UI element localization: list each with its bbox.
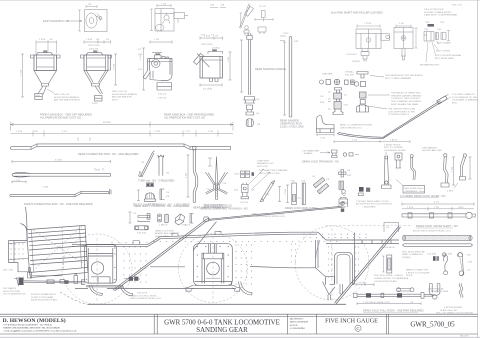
svg-text:5mm RND SHAFT AND ROLLER CLEVI: 5mm RND SHAFT AND ROLLER CLEVISES bbox=[331, 11, 383, 15]
svg-text:RODS: RODS bbox=[406, 275, 413, 277]
lid plan detail box A bbox=[85, 10, 108, 32]
svg-text:5 1/4: 5 1/4 bbox=[62, 131, 68, 133]
svg-text:EACH MOUNTING PLATE: EACH MOUNTING PLATE bbox=[31, 299, 58, 302]
svg-text:DOWN TO PIN DRAIN: DOWN TO PIN DRAIN bbox=[31, 296, 54, 299]
svg-text:EXTEND STEAM SHUTS: EXTEND STEAM SHUTS bbox=[31, 293, 57, 296]
frame right end bbox=[326, 233, 399, 285]
dark guide blocks bbox=[433, 256, 436, 261]
T pin bbox=[357, 72, 368, 79]
tab piece bbox=[441, 33, 446, 40]
guide bracket bbox=[243, 97, 256, 104]
filler knob bbox=[44, 51, 48, 53]
middle sand pipe diagonal bbox=[193, 222, 217, 251]
svg-text:2 BLIND HOLES: 2 BLIND HOLES bbox=[384, 144, 401, 146]
svg-text:BEHIND AND UNTIL: BEHIND AND UNTIL bbox=[155, 232, 176, 235]
svg-text:2 BLVD: 2 BLVD bbox=[390, 140, 398, 142]
svg-text:1/8 & 1/4 TROLLED: 1/8 & 1/4 TROLLED bbox=[424, 9, 444, 11]
svg-text:12/8 11/16: 12/8 11/16 bbox=[137, 293, 148, 295]
T spindle bbox=[335, 88, 342, 94]
leader arrows from notes bbox=[248, 169, 270, 189]
lid knob bbox=[152, 53, 162, 59]
rod guide bump 0 on frame top bbox=[133, 241, 140, 245]
rod end crank right bbox=[342, 201, 346, 207]
divider after address cell bbox=[153, 314, 155, 334]
svg-text:CHECK LENGTH FROM LOCO: CHECK LENGTH FROM LOCO bbox=[254, 216, 285, 218]
dim left of section B bbox=[150, 9, 153, 31]
svg-text:THE LENGTH SHOULD BE: THE LENGTH SHOULD BE bbox=[388, 109, 416, 111]
rounded top bbox=[289, 36, 292, 38]
dims below bbox=[200, 84, 222, 87]
left dims bbox=[142, 48, 145, 90]
spout box bbox=[35, 94, 42, 100]
svg-text:THICKNESS OF THESE TWO: THICKNESS OF THESE TWO bbox=[391, 93, 421, 95]
frame mid lines bbox=[150, 267, 335, 277]
rod body bbox=[357, 294, 421, 296]
small dim below left bbox=[12, 180, 26, 183]
svg-text:AND TAP M4A FOR NUTS: AND TAP M4A FOR NUTS bbox=[54, 99, 81, 102]
base flare bbox=[333, 109, 343, 115]
knob in section bbox=[164, 15, 169, 20]
dim row 2 bbox=[11, 133, 234, 135]
straight sanding rod bbox=[12, 168, 111, 183]
svg-text:1 1/8 CHECK FROM LOCO: 1 1/8 CHECK FROM LOCO bbox=[363, 302, 390, 304]
vertical link right bbox=[339, 181, 344, 190]
left vertical dim bbox=[21, 54, 24, 97]
svg-text:1 1/16: 1 1/16 bbox=[14, 180, 21, 182]
svg-text:1 3/4: 1 3/4 bbox=[399, 23, 405, 25]
svg-text:NUTS: NUTS bbox=[112, 99, 118, 101]
svg-text:SOLDER TO MAKE FRONT: SOLDER TO MAKE FRONT bbox=[424, 11, 452, 14]
C channel small bbox=[190, 214, 194, 224]
crank at top bbox=[206, 218, 210, 220]
acorn tip bbox=[246, 119, 253, 127]
front buffer plate bbox=[9, 207, 28, 272]
rear lower V link bbox=[323, 282, 343, 301]
clevis at top bbox=[247, 33, 252, 40]
svg-text:1 1/8: 1 1/8 bbox=[161, 4, 167, 6]
dims beside bbox=[240, 40, 243, 92]
svg-text:ONE PAIR: ONE PAIR bbox=[322, 73, 333, 76]
rear sand pipe diagonal bbox=[335, 226, 401, 304]
lever 3 dim bbox=[452, 157, 455, 185]
dark pin bbox=[252, 172, 255, 176]
length dim bbox=[283, 42, 286, 115]
svg-text:1/16 5/32: 1/16 5/32 bbox=[427, 254, 437, 256]
svg-text:3/16 x 1/4: 3/16 x 1/4 bbox=[452, 5, 462, 7]
svg-text:5/32 SHAFT WITH WASHER: 5/32 SHAFT WITH WASHER bbox=[259, 169, 288, 172]
svg-text:DRAIN COCK PULL RODS - ONE PAI: DRAIN COCK PULL RODS - ONE PAIR REQUIRED bbox=[363, 308, 424, 312]
guide blocks dark bbox=[366, 293, 371, 297]
small collar bbox=[360, 100, 365, 105]
svg-text:REAR SHAFT TRUNNION - NO - 2 R: REAR SHAFT TRUNNION - NO - 2 REQUIRED bbox=[134, 204, 189, 208]
filler cap circle bbox=[152, 60, 160, 68]
lid bbox=[208, 50, 223, 54]
svg-text:MB x794: MB x794 bbox=[460, 336, 469, 338]
title block inner top line bbox=[0, 315, 478, 317]
small sandbox partial bbox=[339, 190, 348, 207]
leader lines to labels bbox=[426, 41, 439, 62]
dashed centre line to right details bbox=[326, 224, 412, 226]
straight rod dim bbox=[12, 160, 111, 163]
small parts row bbox=[320, 80, 324, 84]
svg-text:MED PLATE 78mm: MED PLATE 78mm bbox=[405, 187, 424, 190]
svg-text:ONE GARDEN: ONE GARDEN bbox=[422, 146, 437, 149]
svg-text:WASHER & 1/32: WASHER & 1/32 bbox=[257, 162, 274, 165]
title block bottom line bbox=[0, 333, 478, 335]
svg-text:ANGLE IRON: ANGLE IRON bbox=[381, 246, 395, 249]
svg-text:FRONT SANDING GEAR): FRONT SANDING GEAR) bbox=[203, 206, 229, 209]
funnel bbox=[84, 71, 108, 84]
pipe entry diagonal inside bbox=[197, 54, 210, 68]
svg-text:TO EXTENSION OF THE: TO EXTENSION OF THE bbox=[452, 97, 477, 99]
svg-text:4 BTS REQUIRED: 4 BTS REQUIRED bbox=[444, 307, 463, 309]
svg-text:BUST SHAPE: BUST SHAPE bbox=[437, 42, 451, 45]
pipe leader bbox=[443, 97, 451, 101]
outlet bbox=[42, 84, 49, 87]
svg-text:1 3/16: 1 3/16 bbox=[16, 131, 23, 133]
fork link bbox=[430, 284, 440, 296]
svg-text:PULL RODS MUST BE: PULL RODS MUST BE bbox=[402, 251, 425, 253]
svg-text:6 15/32: 6 15/32 bbox=[55, 160, 63, 162]
lower clevis bbox=[242, 183, 249, 193]
spout box bbox=[95, 96, 103, 102]
lower small clevis column bbox=[28, 268, 32, 279]
plain tube rod bbox=[403, 244, 473, 247]
lever handle grip bbox=[245, 6, 254, 16]
dome nut dims bbox=[137, 190, 140, 201]
svg-text:FIVE INCH GAUGE: FIVE INCH GAUGE bbox=[325, 318, 378, 324]
svg-text:5/32 PIN: 5/32 PIN bbox=[345, 74, 354, 76]
flattened spoon end bbox=[12, 173, 30, 177]
bar 2 bbox=[302, 183, 305, 205]
washer bbox=[354, 82, 358, 86]
pipe dim bbox=[334, 140, 410, 143]
svg-text:5mm 'O' RING: 5mm 'O' RING bbox=[436, 50, 450, 52]
svg-text:2 1/4: 2 1/4 bbox=[140, 54, 142, 60]
spout pipe bbox=[95, 86, 103, 94]
clevis cluster right dark bbox=[129, 277, 133, 281]
svg-text:SPACERS CAN BE CHANGED: SPACERS CAN BE CHANGED bbox=[391, 94, 422, 97]
box body bbox=[84, 55, 108, 71]
svg-text:1 3/4: 1 3/4 bbox=[228, 56, 230, 62]
svg-text:1 3/4: 1 3/4 bbox=[452, 166, 454, 172]
bone link bbox=[458, 253, 464, 276]
svg-text:DRAIN COCK TRUNNION - NO: DRAIN COCK TRUNNION - NO bbox=[302, 159, 339, 163]
pin with arrows bbox=[447, 31, 450, 41]
svg-text:DRAW COCK PULL RODS: DRAW COCK PULL RODS bbox=[130, 294, 157, 297]
vertical centre dashed lines bbox=[97, 228, 332, 302]
svg-text:EAST SAND BOX LID: EAST SAND BOX LID bbox=[43, 19, 69, 23]
svg-text:2 BALLS: 2 BALLS bbox=[159, 223, 168, 226]
svg-text:1 3/16: 1 3/16 bbox=[407, 207, 414, 209]
rod tip left bbox=[338, 133, 383, 139]
svg-text:DRAIN COCK CROSS SHAFT - NO: DRAIN COCK CROSS SHAFT - NO bbox=[416, 224, 458, 228]
svg-text:15/32 15/32: 15/32 15/32 bbox=[88, 45, 100, 47]
rear connecting rod bbox=[11, 138, 231, 150]
side rect part bbox=[395, 153, 402, 160]
side tab of box C bbox=[381, 34, 390, 40]
filler knob bbox=[94, 51, 98, 53]
leader arrow to lid detail bbox=[67, 20, 82, 22]
dim above clevis box D bbox=[396, 25, 411, 28]
question crank bbox=[443, 255, 448, 271]
C channel part bbox=[160, 189, 165, 200]
section ellipse bbox=[156, 24, 164, 30]
svg-text:M 59/32: M 59/32 bbox=[103, 122, 112, 124]
lever arm diagonal bbox=[239, 4, 250, 29]
lower body bbox=[150, 71, 161, 81]
svg-text:PLATE 78mm NO: PLATE 78mm NO bbox=[440, 309, 458, 312]
wheel centre dashed circle middle bbox=[179, 234, 248, 303]
svg-text:PERMANENT 78mm: PERMANENT 78mm bbox=[405, 190, 426, 193]
front connecting rod bbox=[10, 187, 111, 197]
svg-text:1 7/16: 1 7/16 bbox=[21, 69, 23, 76]
svg-text:JUST SUFFICIENT TO NIP: JUST SUFFICIENT TO NIP bbox=[388, 111, 415, 113]
svg-text:DRAW COCK ROD: DRAW COCK ROD bbox=[155, 229, 174, 232]
dog bone link bbox=[134, 226, 148, 230]
svg-text:1/8 BALL: 1/8 BALL bbox=[345, 71, 355, 74]
filler pipe diagonal bbox=[193, 53, 203, 64]
cylinder part bbox=[158, 214, 162, 222]
svg-text:1/8 5/16: 1/8 5/16 bbox=[158, 97, 167, 99]
small bracket above bbox=[384, 223, 399, 233]
hatched operating rod bbox=[402, 236, 472, 241]
divider before drawing number cell bbox=[385, 314, 387, 334]
top dim bbox=[208, 158, 212, 166]
S spring part bbox=[459, 284, 463, 298]
svg-text:4 RODS TO CYLINDER: 4 RODS TO CYLINDER bbox=[406, 272, 430, 274]
master dim line bbox=[11, 124, 234, 126]
clevis box D bbox=[394, 28, 413, 49]
dark stamp boxes bbox=[146, 183, 149, 187]
key bracket bbox=[138, 214, 150, 220]
S-curve lever bbox=[186, 147, 198, 203]
left end fitting bbox=[354, 293, 358, 297]
iso block bbox=[175, 214, 185, 225]
diagonal lever small bbox=[141, 151, 155, 177]
svg-text:e-mail: doug@dhewsonmodels.co.: e-mail: doug@dhewsonmodels.co.uk WEB SIT… bbox=[3, 330, 77, 333]
svg-text:7/16 1/4: 7/16 1/4 bbox=[158, 94, 167, 96]
diagonal run bbox=[383, 101, 442, 139]
flared base bbox=[357, 105, 369, 112]
svg-text:(TAKE SHAFT FROM: (TAKE SHAFT FROM bbox=[203, 203, 224, 206]
title block outer top line bbox=[0, 313, 478, 315]
svg-text:2 7/8: 2 7/8 bbox=[434, 207, 440, 209]
svg-text:1 3/16: 1 3/16 bbox=[39, 39, 46, 41]
lid bump bbox=[86, 53, 103, 55]
radiating arms bbox=[207, 173, 227, 186]
frame top edge inner line bbox=[72, 234, 317, 246]
nut bbox=[246, 112, 254, 115]
svg-text:AND TAP M4A FOR: AND TAP M4A FOR bbox=[112, 96, 132, 99]
svg-text:5/32' RAWLS: 5/32' RAWLS bbox=[3, 287, 17, 290]
svg-text:A 3/16 CHECK LENGTH FROM LOCO: A 3/16 CHECK LENGTH FROM LOCO bbox=[413, 230, 451, 233]
dim left of lid A bbox=[78, 10, 81, 31]
right vertical dim bbox=[114, 54, 117, 85]
svg-text:CHECK LENGTH FROM LOCO: CHECK LENGTH FROM LOCO bbox=[130, 298, 161, 300]
vertical pointed lever bbox=[215, 157, 217, 200]
channel with hatch bbox=[387, 255, 392, 273]
svg-text:5/16 5/16: 5/16 5/16 bbox=[137, 232, 147, 234]
lever pivot parts bbox=[245, 26, 249, 30]
left lower step bbox=[18, 272, 62, 276]
svg-text:1 3/16: 1 3/16 bbox=[86, 39, 93, 41]
operating rod along frame top bbox=[204, 201, 346, 221]
right vertical dim bbox=[229, 52, 232, 80]
svg-text:+ N-HAND: + N-HAND bbox=[302, 152, 313, 155]
svg-text:LASH PODS AT: LASH PODS AT bbox=[428, 287, 444, 290]
svg-text:7 27/32: 7 27/32 bbox=[364, 23, 372, 25]
lever 4 bbox=[461, 157, 466, 177]
svg-text:5/32' CSB: 5/32' CSB bbox=[3, 269, 13, 271]
hatch on stem bbox=[215, 188, 217, 197]
dim line above bbox=[84, 41, 111, 44]
divider after drawn-by cell bbox=[315, 314, 317, 334]
svg-text:BOLT TO CENTRE: BOLT TO CENTRE bbox=[384, 147, 403, 149]
rod shank bbox=[289, 39, 292, 118]
side tab of section B bbox=[174, 13, 185, 19]
svg-text:+ 9/16: + 9/16 bbox=[42, 187, 49, 189]
svg-text:1/2 1/2: 1/2 1/2 bbox=[259, 6, 266, 8]
svg-text:REAR CONNECTING ROD - NO - ONE: REAR CONNECTING ROD - NO - ONE REQUIRED bbox=[78, 152, 139, 156]
svg-text:1/2 Rad: 1/2 Rad bbox=[212, 47, 220, 49]
valve below box C bbox=[361, 49, 369, 62]
upper pair bbox=[241, 171, 245, 178]
svg-text:SOFT SOLDER ORIGINAL: SOFT SOLDER ORIGINAL bbox=[435, 54, 462, 57]
bracket part bbox=[424, 32, 434, 42]
middle tick fitting bbox=[381, 293, 384, 297]
svg-text:OF HIGHEST SPLINE: OF HIGHEST SPLINE bbox=[384, 150, 406, 152]
leader lines from notes bbox=[368, 76, 390, 110]
svg-text:15/32 13/16: 15/32 13/16 bbox=[201, 44, 213, 46]
lower clevis bbox=[247, 105, 253, 112]
tilted front sand box bbox=[27, 225, 90, 277]
lid section detail box B bbox=[155, 9, 174, 32]
lid latch detail bbox=[95, 14, 102, 21]
frame bottom edge bbox=[75, 288, 236, 290]
divider after main title cell bbox=[287, 314, 289, 334]
frame profile bbox=[9, 207, 400, 289]
bracket B (middle axlebox guide) bbox=[186, 244, 240, 292]
TITLE BLOCK bbox=[0, 314, 478, 334]
svg-text:1/4 BSP: 1/4 BSP bbox=[352, 61, 361, 63]
bar 1 bbox=[292, 183, 297, 205]
funnel bbox=[34, 71, 57, 84]
svg-text:1 7/32: 1 7/32 bbox=[154, 131, 161, 133]
extension lines bbox=[36, 44, 57, 54]
svg-text:ALL FABRICATION AND COST LID: ALL FABRICATION AND COST LID bbox=[164, 116, 205, 120]
dim right of box D bbox=[415, 28, 418, 48]
svg-text:1 7/16: 1 7/16 bbox=[285, 188, 287, 195]
clevis dark left bbox=[19, 278, 24, 285]
svg-text:GUIDES UNITED TO UNDERSIDE: GUIDES UNITED TO UNDERSIDE bbox=[374, 278, 409, 280]
outlet bbox=[92, 84, 100, 87]
svg-text:2 1/4: 2 1/4 bbox=[352, 140, 358, 142]
svg-text:1 1/8: 1 1/8 bbox=[208, 131, 214, 133]
lever 4 leader bbox=[454, 183, 458, 188]
lever 3 bbox=[443, 157, 448, 184]
svg-text:1/32 DRAIN PAN: 1/32 DRAIN PAN bbox=[302, 149, 319, 152]
right end bbox=[421, 293, 433, 299]
svg-text:BRASS CONNECTOR: BRASS CONNECTOR bbox=[406, 269, 429, 272]
svg-text:AS SUPPLIED BY DOUG HEWSON: AS SUPPLIED BY DOUG HEWSON bbox=[356, 203, 392, 206]
svg-text:GWR_5700_05: GWR_5700_05 bbox=[410, 321, 455, 329]
arm end ticks bbox=[205, 173, 228, 174]
svg-text:2 1/4: 2 1/4 bbox=[186, 172, 188, 178]
bracket A (front axle guide) bbox=[84, 245, 116, 284]
hatched spacer bbox=[360, 92, 367, 98]
end fitting bbox=[437, 96, 447, 104]
rivet dot fields bbox=[10, 234, 366, 285]
svg-text:ALL FABRICATION AND COST LID: ALL FABRICATION AND COST LID bbox=[40, 116, 81, 120]
svg-text:THE COMBINED THICKNESS: THE COMBINED THICKNESS bbox=[391, 101, 421, 103]
page bottom edge bbox=[0, 336, 480, 338]
linkage rod bbox=[24, 281, 123, 287]
stem bbox=[337, 99, 340, 102]
svg-text:1 1/8: 1 1/8 bbox=[320, 137, 326, 139]
svg-text:13/16: 13/16 bbox=[234, 173, 240, 175]
spout pipe bbox=[38, 86, 47, 95]
svg-text:HOLES FROM VALANCE: HOLES FROM VALANCE bbox=[112, 93, 138, 96]
bottom dim bbox=[357, 302, 421, 305]
svg-text:NE HARDEN EYES: NE HARDEN EYES bbox=[420, 63, 440, 66]
svg-text:+ REQUIRED: + REQUIRED bbox=[362, 206, 376, 208]
svg-text:4 1/4: 4 1/4 bbox=[434, 201, 440, 203]
svg-text:2/16 X 1/16 ROD 'D' TRUNNION: 2/16 X 1/16 ROD 'D' TRUNNION bbox=[252, 213, 284, 215]
svg-text:CYLINDER DRAIN COCK LEVER - NO: CYLINDER DRAIN COCK LEVER - NO bbox=[400, 194, 446, 198]
horn gap notch right bbox=[335, 252, 353, 284]
mid fittings bbox=[60, 280, 85, 285]
svg-text:THICKNESS MUST NOT ENCROACH: THICKNESS MUST NOT ENCROACH bbox=[385, 74, 423, 77]
svg-text:TYPICAL LINKED SAND COCKS: TYPICAL LINKED SAND COCKS bbox=[356, 200, 389, 203]
svg-text:HOLES FROM VALANCE: HOLES FROM VALANCE bbox=[54, 96, 80, 99]
rod guide bump 2 on frame top bbox=[215, 231, 221, 234]
wall lines bbox=[81, 55, 112, 71]
svg-text:1 7/8 7/16: 1 7/8 7/16 bbox=[357, 282, 368, 284]
fork post bbox=[158, 155, 164, 176]
key dims bbox=[129, 212, 132, 223]
rod shank bbox=[248, 40, 250, 96]
small middle pieces bbox=[436, 33, 439, 40]
horizontal eye link bbox=[397, 289, 411, 292]
svg-text:INTO FROM LEAD: INTO FROM LEAD bbox=[435, 57, 454, 60]
chain small parts bbox=[343, 153, 346, 156]
hatched gland bbox=[334, 93, 342, 99]
svg-text:FRONT CONNECTING ROD - NO - ON: FRONT CONNECTING ROD - NO - ONE PAIR REQ… bbox=[24, 202, 93, 206]
svg-text:LOCK NUT: LOCK NUT bbox=[346, 54, 358, 56]
lever vertical dim bbox=[240, 13, 243, 27]
copyright circle bbox=[355, 325, 361, 331]
dome nut bbox=[144, 193, 155, 201]
small fittings on top bbox=[162, 57, 169, 59]
svg-text:AND 1/32 SPLIT PIN: AND 1/32 SPLIT PIN bbox=[259, 172, 280, 175]
bracket C (rear axle area) bbox=[316, 240, 335, 285]
svg-text:12/32 x 17/32 LONG: 12/32 x 17/32 LONG bbox=[280, 125, 304, 129]
lower long line (footplate) bbox=[60, 292, 346, 304]
svg-text:'O' RINGS SLIGHTLY: 'O' RINGS SLIGHTLY bbox=[388, 114, 410, 116]
clevis box C bbox=[356, 29, 381, 49]
svg-text:SHOULD AND ONE: SHOULD AND ONE bbox=[422, 149, 442, 152]
X/plus part bbox=[339, 170, 347, 178]
svg-text:ROD: ROD bbox=[452, 102, 457, 104]
svg-text:BEND TO CLEAR FROM GUIDE: BEND TO CLEAR FROM GUIDE bbox=[340, 124, 373, 127]
dim above lid A bbox=[86, 5, 97, 8]
pivot boss bbox=[213, 184, 219, 190]
svg-text:4 BTS: 4 BTS bbox=[447, 190, 454, 192]
svg-text:13/16 7/8: 13/16 7/8 bbox=[89, 48, 99, 50]
bottom feet bbox=[210, 78, 219, 82]
body bbox=[200, 57, 223, 79]
